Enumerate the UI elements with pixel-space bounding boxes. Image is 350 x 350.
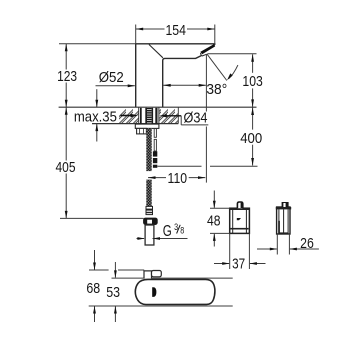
hose ferrule	[146, 206, 153, 214]
svg-text:103: 103	[242, 73, 262, 90]
bottom view: tab left part	[144, 271, 152, 279]
dim 154	[136, 22, 215, 45]
deck hatch right	[159, 108, 178, 123]
svg-text:G: G	[163, 223, 172, 240]
svg-text:400: 400	[240, 130, 262, 147]
supply tube end G3/8	[145, 225, 154, 245]
dim 48	[207, 191, 230, 247]
control box side view	[276, 202, 291, 234]
svg-text:110: 110	[168, 170, 188, 187]
braided hose lower	[146, 180, 151, 207]
svg-text:53: 53	[106, 284, 120, 301]
svg-text:max.35: max.35	[74, 109, 117, 126]
dim diameter 52	[96, 69, 207, 87]
hose hex nut	[143, 218, 158, 225]
svg-text:37: 37	[232, 255, 245, 272]
dim 37	[214, 233, 266, 272]
bottom view: faucet body	[135, 279, 215, 304]
dim 68	[86, 250, 100, 322]
bottom view: sensor dash	[152, 287, 156, 297]
deck hatch left	[119, 108, 139, 123]
threaded shank through deck	[140, 108, 158, 124]
faucet body outline	[136, 44, 215, 107]
deck hatch right closing edge	[177, 107, 179, 123]
svg-text:405: 405	[56, 159, 76, 176]
spout slot (dark)	[200, 44, 215, 54]
dim 103	[242, 54, 262, 107]
dim 123	[57, 44, 136, 107]
svg-text:48: 48	[207, 213, 221, 230]
dim 34 hole	[121, 109, 209, 126]
label G 3/8	[137, 222, 188, 240]
svg-text:Ø34: Ø34	[184, 109, 208, 126]
control box front view	[229, 202, 250, 233]
deck bottom line	[92, 123, 178, 125]
deck hole right edge	[158, 107, 160, 123]
svg-text:26: 26	[300, 235, 314, 252]
dim 53	[106, 262, 120, 322]
svg-text:38°: 38°	[206, 81, 227, 98]
box led window	[237, 218, 241, 220]
cable connector	[153, 151, 157, 168]
bottom view: body bottom extension line	[89, 305, 233, 307]
deck top line	[59, 106, 257, 108]
box pin side	[282, 202, 289, 207]
fixing nut	[137, 128, 147, 134]
faucet chamfer edge	[149, 45, 163, 58]
svg-text:68: 68	[86, 280, 100, 297]
dim 110	[148, 170, 206, 187]
angle 38 deg	[206, 54, 256, 183]
box pin front	[237, 202, 242, 208]
svg-text:Ø52: Ø52	[99, 69, 124, 86]
dim 405	[56, 107, 144, 218]
spout tip lower edge	[201, 53, 207, 56]
bottom view: body top extension line	[112, 277, 233, 279]
svg-text:154: 154	[165, 22, 186, 39]
braided hose upper	[146, 128, 151, 171]
dim 400	[158, 108, 263, 167]
bottom view: reference line top (68)	[89, 269, 144, 271]
deck hole left edge	[138, 107, 140, 123]
svg-text:8: 8	[180, 226, 184, 237]
washer under deck	[135, 124, 159, 128]
faucet head underside	[163, 56, 202, 108]
dim max.35	[74, 89, 117, 141]
bottom view: tab right part	[152, 271, 162, 277]
sensor cable	[154, 129, 156, 151]
dim 26	[257, 234, 319, 255]
svg-text:123: 123	[57, 68, 77, 85]
